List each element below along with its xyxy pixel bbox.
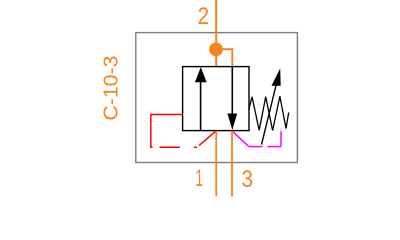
flow arrow up (port 1 to 2) (195, 67, 207, 130)
flow arrow down (port 2 to 3) (227, 67, 237, 130)
svg-text:2: 2 (198, 3, 210, 30)
svg-text:C-10-3: C-10-3 (101, 56, 123, 121)
valve envelope square (183, 67, 249, 131)
boundary box (gray frame) (136, 33, 298, 163)
wire port 3 line (231, 131, 233, 197)
adjustment arrow (diagonal through spring) (262, 68, 281, 144)
svg-text:3: 3 (241, 166, 253, 193)
wire port 2 line (215, 0, 217, 67)
wire pilot elbow from node to down-arrow path (216, 49, 232, 66)
wire port 1 line (215, 131, 217, 196)
node junction dot (209, 43, 223, 57)
drain line magenta (dashed) to port 3 (232, 131, 281, 146)
svg-text:1: 1 (195, 165, 203, 192)
pilot line red (dashed) from inlet to valve left (151, 115, 216, 148)
spring (249, 96, 289, 130)
